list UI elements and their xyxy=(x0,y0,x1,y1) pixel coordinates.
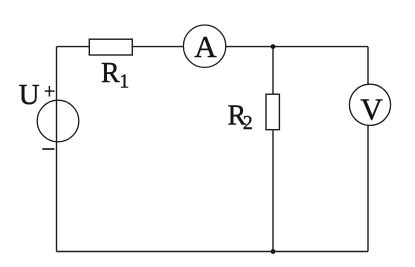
svg-text:A: A xyxy=(194,29,217,64)
wire top: R1 to ammeter xyxy=(132,46,184,48)
wire left vertical (source branch, passes through source circle) xyxy=(56,47,58,252)
wire top: ammeter to top-right corner xyxy=(226,46,368,48)
wire right vertical upper xyxy=(367,47,369,85)
node junction bottom xyxy=(271,249,276,254)
wire top: left corner to R1 xyxy=(57,46,91,48)
voltage source U xyxy=(37,100,79,142)
resistor R1 xyxy=(89,39,132,55)
svg-text:V: V xyxy=(360,92,383,127)
wire bottom horizontal xyxy=(57,251,369,253)
wire right vertical lower xyxy=(367,125,369,251)
ammeter A xyxy=(183,25,225,67)
voltmeter V xyxy=(349,84,390,125)
wire R2 branch upper xyxy=(272,47,274,95)
svg-text:U: U xyxy=(19,79,40,111)
svg-text:1: 1 xyxy=(119,71,129,93)
resistor R2 xyxy=(266,94,279,130)
svg-text:2: 2 xyxy=(243,112,253,134)
wire R2 branch lower xyxy=(272,130,274,251)
plus polarity mark xyxy=(45,86,55,97)
node junction top xyxy=(271,44,276,49)
svg-text:R: R xyxy=(101,58,120,89)
minus polarity mark xyxy=(42,148,54,150)
